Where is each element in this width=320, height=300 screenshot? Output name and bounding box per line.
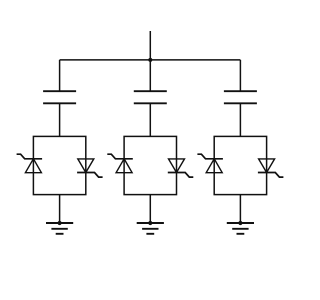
wire: capacitor C1 to arrester box (59, 103, 61, 136)
junction dot: ground node 2 (148, 221, 152, 225)
wire: branch 2 drop from bus to capacitor C2 (149, 60, 151, 91)
capacitor C1 (43, 91, 76, 103)
wire: branch 1 drop from bus to capacitor C1 (59, 60, 61, 91)
wire: box to ground (branch 3) (239, 195, 241, 223)
capacitor C3 (224, 91, 257, 103)
TVS diode D2b (right, cathode down) (168, 159, 194, 177)
wire: capacitor C3 to arrester box (239, 103, 241, 136)
junction dot: ground node 1 (58, 221, 62, 225)
TVS diode D3a (left, cathode up) (197, 154, 223, 173)
wire: box to ground (branch 2) (149, 195, 151, 223)
wire: box to ground (branch 1) (59, 195, 61, 223)
wire: branch 3 drop from bus to capacitor C3 (239, 60, 241, 91)
ground symbol (branch 2) (137, 223, 164, 234)
TVS diode D1a (left, cathode up) (17, 154, 42, 173)
arrester box outline (branch 3) (214, 136, 266, 194)
wire: capacitor C2 to arrester box (149, 103, 151, 136)
arrester box outline (branch 2) (124, 136, 176, 194)
wire: horizontal bus (60, 59, 241, 61)
junction dot: ground node 3 (238, 221, 242, 225)
ground symbol (branch 1) (46, 223, 73, 234)
wire: top feed into bus (149, 31, 151, 60)
TVS diode D2a (left, cathode up) (107, 154, 133, 173)
arrester box outline (branch 1) (33, 136, 85, 194)
TVS diode D1b (right, cathode down) (77, 159, 103, 177)
ground symbol (branch 3) (227, 223, 254, 234)
TVS diode D3b (right, cathode down) (258, 159, 284, 177)
capacitor C2 (134, 91, 167, 103)
junction dot: feed/bus node (148, 58, 152, 62)
